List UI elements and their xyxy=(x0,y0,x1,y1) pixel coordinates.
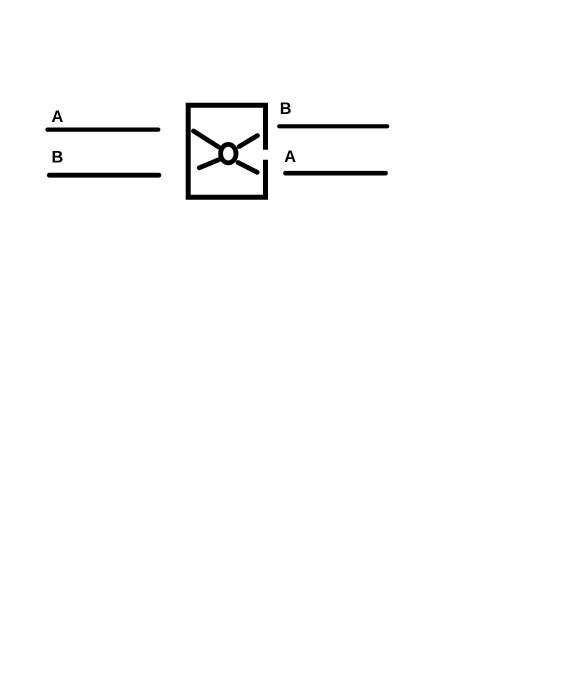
wire (left input A) xyxy=(48,128,159,132)
svg-text:A: A xyxy=(284,148,296,166)
svg-text:A: A xyxy=(52,108,64,126)
svg-text:B: B xyxy=(52,149,64,167)
svg-text:B: B xyxy=(280,100,292,118)
node (center circle of crossover) xyxy=(221,144,236,162)
wire (lower-right X stroke inside box) xyxy=(238,163,257,173)
wire (upper-left X stroke inside box) xyxy=(194,131,219,147)
wire (lower-left X stroke inside box) xyxy=(199,160,219,168)
wire (upper-right X stroke inside box) xyxy=(239,136,257,147)
wire (right output B) xyxy=(279,124,387,128)
wire (right output A) xyxy=(285,171,385,176)
wire (left input B) xyxy=(49,173,159,178)
crossover box U1 (rectangle with gap in right edge) xyxy=(188,105,265,197)
